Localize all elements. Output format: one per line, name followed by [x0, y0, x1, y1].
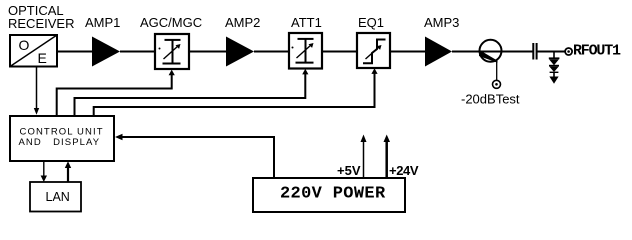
protection diode D1	[549, 58, 560, 65]
equalizer EQ1	[357, 15, 390, 68]
capacitor C1 (DC block)	[533, 43, 536, 60]
+24V supply arrow	[384, 135, 391, 179]
svg-text:O: O	[19, 37, 30, 53]
svg-text:AMP2: AMP2	[225, 15, 260, 30]
amplifier AMP2	[225, 15, 260, 67]
wire AMP3 to capacitor	[452, 51, 533, 53]
directional coupler / test tap	[479, 40, 502, 63]
wire AMP1 to AGC/MGC	[120, 51, 155, 53]
label OPTICAL RECEIVER	[8, 3, 74, 31]
variable attenuator ATT1	[289, 15, 322, 69]
arrow to ground below diodes	[549, 72, 558, 84]
control unit box	[10, 116, 114, 161]
output terminal RFOUT1	[565, 48, 572, 55]
control wire to ATT1	[75, 69, 309, 116]
svg-text:+5V: +5V	[337, 163, 361, 178]
wire LAN to control unit	[65, 161, 71, 182]
svg-text:AMP3: AMP3	[424, 15, 459, 30]
svg-text:ATT1: ATT1	[291, 15, 322, 30]
svg-text:RECEIVER: RECEIVER	[8, 16, 74, 31]
svg-text:+24V: +24V	[389, 163, 419, 178]
wire O/E to AMP1	[57, 51, 93, 53]
test point connector -20dBTest	[493, 80, 501, 88]
wire AMP2 to ATT1	[254, 51, 289, 53]
LAN box	[30, 182, 81, 212]
svg-text:220V POWER: 220V POWER	[280, 185, 386, 204]
svg-text:AGC/MGC: AGC/MGC	[140, 15, 202, 30]
wire ATT1 to EQ1	[322, 51, 357, 53]
power wire 220V to control unit	[115, 134, 274, 178]
protection diode D2	[549, 66, 559, 73]
wire control unit to LAN	[41, 161, 47, 182]
svg-text:RFOUT1: RFOUT1	[573, 43, 621, 60]
control wire to EQ1	[94, 68, 378, 116]
svg-text:LAN: LAN	[46, 190, 70, 204]
svg-text:CONTROL UNIT: CONTROL UNIT	[20, 127, 104, 138]
node junction at diode stack	[553, 52, 555, 59]
wire AGC/MGC to AMP2	[189, 51, 227, 53]
wire EQ1 to AMP3	[390, 51, 426, 53]
wire capacitor to RFOUT1 terminal	[538, 51, 566, 53]
svg-text:AMP1: AMP1	[85, 15, 120, 30]
power supply box 220V POWER	[253, 178, 405, 212]
svg-text:-20dBTest: -20dBTest	[461, 92, 520, 107]
+5V supply arrow	[361, 135, 367, 179]
control wire to AGC/MGC	[57, 70, 175, 116]
wire coupler to test point	[496, 60, 498, 81]
variable attenuator AGC/MGC	[140, 15, 202, 69]
amplifier AMP1	[85, 15, 120, 67]
svg-text:EQ1: EQ1	[358, 15, 384, 30]
wire O/E to control unit	[34, 67, 39, 115]
optical receiver U1 (O/E converter)	[10, 35, 57, 67]
svg-text:AND DISPLAY: AND DISPLAY	[19, 137, 101, 148]
amplifier AMP3	[424, 15, 459, 67]
svg-text:E: E	[38, 50, 47, 66]
